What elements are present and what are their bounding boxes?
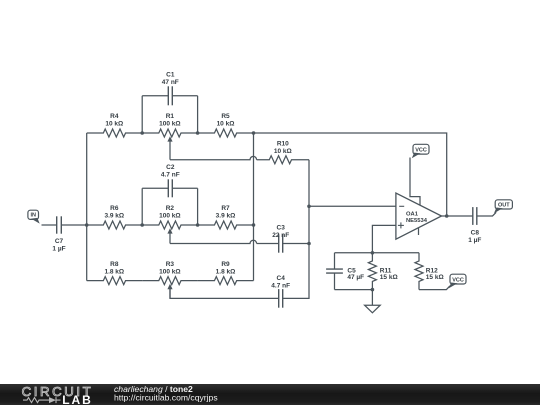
svg-text:C3: C3 [277,225,286,232]
svg-text:10 kΩ: 10 kΩ [217,121,235,128]
svg-text:http://circuitlab.com/cqyrjps: http://circuitlab.com/cqyrjps [114,393,218,403]
svg-text:15 kΩ: 15 kΩ [380,274,398,281]
svg-text:10 kΩ: 10 kΩ [105,121,123,128]
svg-text:IN: IN [30,213,36,219]
svg-text:C4: C4 [277,275,286,282]
svg-text:LAB: LAB [62,393,93,405]
svg-text:1.8 kΩ: 1.8 kΩ [216,268,236,275]
svg-text:R5: R5 [221,113,230,120]
svg-text:15 kΩ: 15 kΩ [426,274,444,281]
svg-text:1 µF: 1 µF [468,237,481,244]
svg-text:R9: R9 [221,261,230,268]
svg-text:R3: R3 [166,261,175,268]
svg-text:R10: R10 [277,141,289,148]
svg-text:1.8 kΩ: 1.8 kΩ [104,268,124,275]
svg-text:R2: R2 [166,205,175,212]
svg-text:C1: C1 [166,72,175,79]
svg-text:R1: R1 [166,113,175,120]
svg-text:R6: R6 [110,205,119,212]
svg-text:VCC: VCC [415,147,427,153]
svg-text:C8: C8 [471,229,480,236]
svg-text:47 nF: 47 nF [162,79,179,86]
svg-text:22 nF: 22 nF [272,232,289,239]
svg-text:100 kΩ: 100 kΩ [159,121,180,128]
svg-text:1 µF: 1 µF [52,246,65,253]
svg-text:R8: R8 [110,261,119,268]
svg-text:VCC: VCC [452,277,464,283]
svg-text:R7: R7 [221,205,230,212]
svg-text:3.9 kΩ: 3.9 kΩ [216,213,236,220]
svg-text:47 µF: 47 µF [347,274,364,281]
svg-text:4.7 nF: 4.7 nF [271,283,290,290]
svg-text:100 kΩ: 100 kΩ [159,268,180,275]
svg-text:OUT: OUT [498,202,510,208]
svg-text:3.9 kΩ: 3.9 kΩ [104,213,124,220]
svg-text:C7: C7 [55,238,64,245]
svg-text:4.7 nF: 4.7 nF [161,172,180,179]
svg-text:C2: C2 [166,164,175,171]
svg-text:100 kΩ: 100 kΩ [159,213,180,220]
svg-text:R4: R4 [110,113,119,120]
svg-text:NE5534: NE5534 [406,218,428,224]
svg-text:10 kΩ: 10 kΩ [274,148,292,155]
svg-text:OA1: OA1 [406,211,419,217]
